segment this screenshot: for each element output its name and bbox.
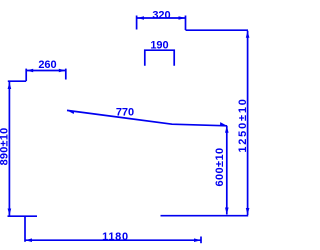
arrow 1250 bottom bbox=[246, 208, 250, 215]
svg-text:260: 260 bbox=[38, 59, 56, 71]
dim 320: right extension bbox=[185, 16, 187, 31]
svg-text:890±10: 890±10 bbox=[0, 128, 10, 166]
arrow 260 left bbox=[26, 69, 33, 73]
arrow 770 left bbox=[67, 110, 74, 114]
svg-text:770: 770 bbox=[116, 107, 134, 119]
dim 770 diagonal line (slightly bent) bbox=[67, 110, 227, 125]
canopy top line bbox=[186, 29, 249, 31]
arrow 890 bottom bbox=[8, 209, 12, 216]
dim 320: line bbox=[137, 17, 186, 19]
arrow 600 top bbox=[225, 126, 229, 133]
dim 190 bracket bbox=[145, 50, 174, 66]
dim 260 line bbox=[26, 70, 66, 72]
svg-text:600±10: 600±10 bbox=[214, 147, 226, 186]
base line right segment bbox=[161, 215, 249, 217]
dim 260 left extension bbox=[25, 69, 27, 81]
dim 260 right extension bbox=[65, 69, 67, 80]
arrow 1250 top bbox=[246, 31, 250, 38]
arrow 320 left bbox=[137, 16, 144, 20]
dim 1180 line bbox=[25, 239, 201, 241]
dim 1180 left extension bbox=[24, 216, 26, 242]
svg-text:1250±10: 1250±10 bbox=[237, 97, 249, 152]
dim 600 line bbox=[226, 126, 228, 215]
dim 1250 line bbox=[247, 31, 249, 215]
arrow 1180 right bbox=[194, 238, 201, 242]
base line left segment bbox=[8, 215, 38, 217]
svg-text:190: 190 bbox=[150, 40, 168, 52]
technical dimension drawing of display counter cross-section bbox=[0, 0, 250, 250]
arrow 260 right bbox=[59, 69, 66, 73]
dim 320: left extension bbox=[136, 16, 138, 30]
body top-left ledge bbox=[8, 80, 26, 82]
arrow 770 right bbox=[220, 122, 227, 126]
dim 890 line bbox=[8, 82, 10, 216]
svg-text:320: 320 bbox=[152, 10, 170, 22]
arrow 320 right bbox=[179, 16, 186, 20]
svg-text:1180: 1180 bbox=[102, 231, 129, 243]
arrow 890 top bbox=[8, 82, 12, 89]
arrow 1180 left bbox=[25, 238, 32, 242]
arrow 600 bottom bbox=[225, 208, 229, 215]
dim 1180 right extension bbox=[200, 237, 202, 244]
